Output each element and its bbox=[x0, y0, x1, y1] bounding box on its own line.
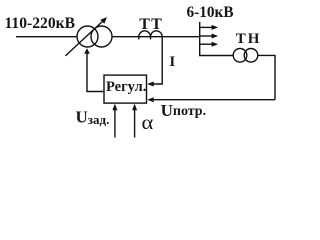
svg-text:Uпотр.: Uпотр. bbox=[161, 101, 207, 120]
wire TN output right and down bbox=[258, 55, 275, 99]
wire regulator output to tap changer bbox=[87, 51, 104, 92]
wire Uzad input bbox=[114, 106, 116, 138]
voltage transformer TN (two circles) bbox=[233, 49, 247, 63]
svg-text:110-220кВ: 110-220кВ bbox=[5, 15, 76, 32]
svg-text:I: I bbox=[169, 54, 175, 70]
transformer T1 tap-changing (two circles) bbox=[77, 26, 98, 47]
arrowhead Upotr into regulator (left) bbox=[147, 97, 154, 102]
wire Upotr feedback into regulator bbox=[149, 99, 275, 101]
wire feeder arrow middle bbox=[200, 35, 213, 37]
wire feeder arrow top bbox=[200, 26, 213, 28]
arrowhead I into regulator (left) bbox=[147, 82, 154, 87]
bus 6-10kV vertical bbox=[199, 22, 201, 56]
wire alpha input bbox=[134, 106, 136, 138]
arrowhead feeder top bbox=[212, 25, 219, 30]
svg-text:Регул.: Регул. bbox=[106, 79, 146, 95]
wire incoming 110-220kV line bbox=[16, 36, 77, 38]
wire bus to voltage transformer TN bbox=[199, 55, 233, 57]
svg-text:6-10кВ: 6-10кВ bbox=[187, 4, 234, 21]
svg-text:α: α bbox=[142, 111, 154, 134]
regulation diagonal arrow through transformer bbox=[65, 20, 104, 56]
wire I measurement: down from CT then left into regulator bbox=[149, 37, 162, 84]
svg-text:ТН: ТН bbox=[236, 31, 262, 47]
CT arc end ticks bbox=[138, 37, 140, 40]
current transformer TT arcs bbox=[139, 31, 162, 37]
regulator box bbox=[104, 75, 147, 103]
wire feeder arrow bottom bbox=[200, 43, 213, 45]
arrowhead tap changer up arrow bbox=[84, 48, 90, 54]
arrowhead alpha up bbox=[132, 104, 137, 111]
arrowhead feeder bottom bbox=[212, 42, 219, 47]
wire from transformer to bus bbox=[112, 36, 199, 38]
arrowhead feeder middle bbox=[212, 34, 219, 39]
arrowhead diagonal regulation arrow bbox=[100, 17, 107, 24]
arrowhead Uzad up bbox=[112, 104, 117, 111]
svg-text:ТТ: ТТ bbox=[139, 16, 163, 33]
